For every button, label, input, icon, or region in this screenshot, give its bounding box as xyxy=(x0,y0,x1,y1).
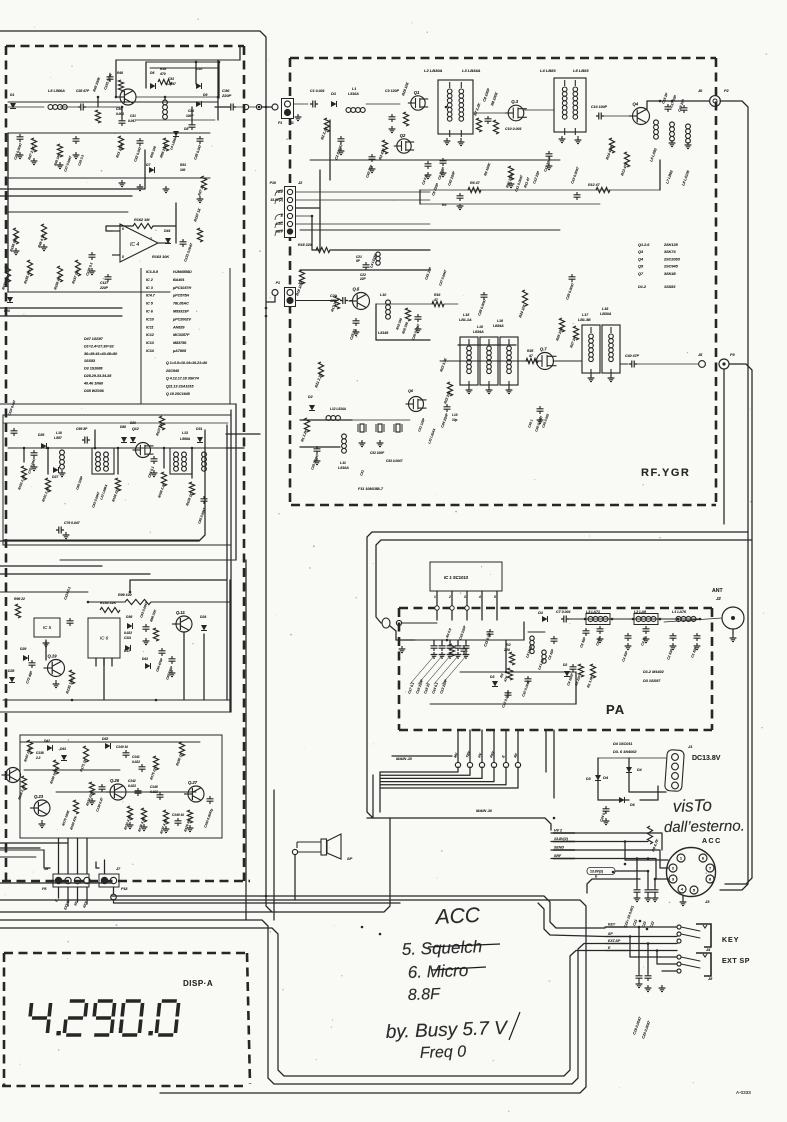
capacitor C8p xyxy=(553,636,555,644)
ground C4 xyxy=(425,172,432,179)
svg-text:R49 100K: R49 100K xyxy=(92,76,101,92)
capacitor C1p xyxy=(696,633,698,641)
ground ltop2 xyxy=(137,184,144,191)
ground ltop3 xyxy=(163,186,170,193)
svg-text:visTo: visTo xyxy=(672,796,712,816)
connector J1 DC body xyxy=(665,749,685,791)
wire IC1 pin 3 xyxy=(466,591,468,620)
connector P2 center xyxy=(713,99,717,103)
capacitor C34 xyxy=(446,404,448,412)
wire R99 rail left xyxy=(88,601,125,603)
svg-text:C15 22: C15 22 xyxy=(423,683,431,695)
svg-text:IC10: IC10 xyxy=(146,317,155,321)
svg-text:LB1-1A: LB1-1A xyxy=(459,318,472,322)
ground L7 xyxy=(669,140,676,147)
svg-text:C6 39P: C6 39P xyxy=(579,636,587,648)
capacitor C84 xyxy=(153,456,155,464)
svg-text:2SC2053: 2SC2053 xyxy=(663,257,681,261)
wire J7 drop xyxy=(113,887,115,894)
speaker terminal xyxy=(292,849,297,854)
wire ifbox right exit 2 xyxy=(226,447,244,449)
svg-text:BA401: BA401 xyxy=(173,278,184,282)
diode D3dc xyxy=(595,775,601,781)
resistor R98 xyxy=(153,628,158,641)
ground C19b xyxy=(457,204,464,210)
diode D6 xyxy=(150,83,156,89)
wire ltop rail y178 xyxy=(8,177,210,179)
jack J5 prong 1 xyxy=(681,957,700,961)
ground L18 xyxy=(608,375,615,382)
transistor Q22 xyxy=(6,768,21,783)
svg-text:IC11: IC11 xyxy=(146,325,154,329)
wire top feed vertical bus xyxy=(0,31,272,912)
connector J2 pin 6 xyxy=(287,229,292,234)
wire ACC signal 13.8V(2) xyxy=(551,841,648,843)
svg-text:D9: D9 xyxy=(203,93,207,97)
jack J5 prong 2 xyxy=(681,964,700,968)
svg-text:C11 0.0047: C11 0.0047 xyxy=(514,174,524,193)
wire J6 riser E xyxy=(58,838,60,874)
transistor Q1 xyxy=(411,96,425,110)
svg-text:C31: C31 xyxy=(359,469,365,476)
wire IC1 pin 2 xyxy=(451,591,453,620)
wire MAIN J3 RF xyxy=(517,730,519,762)
seven-segment digit 9 xyxy=(92,1001,115,1035)
svg-text:C28 0.0047: C28 0.0047 xyxy=(310,453,319,470)
svg-text:EXT SP: EXT SP xyxy=(722,958,750,965)
svg-text:L1: L1 xyxy=(352,87,356,91)
wire ifbox stub e xyxy=(163,448,165,468)
ground aud3 xyxy=(127,822,134,829)
svg-text:D28.29.33.34.35: D28.29.33.34.35 xyxy=(84,374,112,378)
svg-text:D6: D6 xyxy=(150,71,154,75)
svg-text:1SS53: 1SS53 xyxy=(664,285,676,289)
svg-text:C69 3P: C69 3P xyxy=(76,427,88,431)
wire pa vert j xyxy=(575,672,577,704)
wire key signal E xyxy=(605,950,677,952)
svg-text:DC13.8V: DC13.8V xyxy=(692,755,721,762)
svg-text:D43: D43 xyxy=(142,657,148,661)
terminal PA pin border 2 xyxy=(450,606,454,610)
svg-text:C12 0.0047: C12 0.0047 xyxy=(501,691,511,709)
ACC connector pin 3 xyxy=(669,875,677,883)
svg-text:C139 0.47: C139 0.47 xyxy=(95,797,104,812)
capacitor C32L xyxy=(139,138,141,146)
svg-text:47: 47 xyxy=(433,298,439,302)
seven-segment digit 0a xyxy=(120,1001,143,1035)
resistor R37 xyxy=(201,176,206,190)
resistor R160 xyxy=(73,800,78,814)
svg-text:0.022: 0.022 xyxy=(132,760,140,764)
svg-text:C10 0.0047: C10 0.0047 xyxy=(521,680,531,698)
wire SP feed rail xyxy=(538,903,605,937)
wire MAIN J3 bundle 4 xyxy=(380,767,506,785)
svg-text:Q.11: Q.11 xyxy=(176,610,185,615)
wire ltop stub c30 xyxy=(121,107,123,118)
connector J1 DC pin 4 xyxy=(672,782,679,789)
resistor R157 xyxy=(197,228,202,242)
wire MAIN J4 bus xyxy=(367,818,551,830)
svg-text:C31 120P: C31 120P xyxy=(417,417,426,433)
resistor R171 xyxy=(83,746,88,762)
svg-text:LB34A: LB34A xyxy=(493,324,504,328)
wire ltop rail y68 xyxy=(150,67,218,69)
wire PA in to caps xyxy=(415,639,448,641)
svg-text:R160 47K: R160 47K xyxy=(69,815,78,831)
connector P2 xyxy=(710,96,721,107)
ground C14 0.1 xyxy=(455,652,462,658)
wire ACC E curve xyxy=(587,879,592,893)
svg-text:R7 2.2K: R7 2.2K xyxy=(473,102,481,116)
wire J1 to C1 xyxy=(294,103,309,105)
resistor R26 xyxy=(559,318,564,332)
wire trio rail xyxy=(440,360,530,362)
resistor R20 xyxy=(405,308,410,321)
wire E loop rail xyxy=(0,928,605,1076)
svg-text:D44: D44 xyxy=(164,229,170,233)
svg-text:IC4.7: IC4.7 xyxy=(146,294,156,298)
svg-text:2SC945: 2SC945 xyxy=(165,369,180,373)
resistor R46 xyxy=(41,224,46,240)
crystal F11 b xyxy=(378,424,382,432)
capacitor C146 xyxy=(177,818,179,826)
inductor L5L xyxy=(48,105,53,110)
inductor L6L mid xyxy=(163,100,168,105)
resistor R4 xyxy=(449,644,454,656)
wire MAIN J3 bundle 0 xyxy=(380,767,458,772)
svg-text:100: 100 xyxy=(180,168,186,172)
ground F11a xyxy=(359,440,366,447)
wire rf rail y230 xyxy=(300,229,560,231)
capacitor C15 22 xyxy=(449,643,451,651)
wire extsp jack3 link xyxy=(662,970,677,972)
svg-text:R6 47: R6 47 xyxy=(470,181,481,185)
wire ltop rail3 xyxy=(86,106,120,108)
ground C28rf xyxy=(314,458,321,465)
resistor R174 xyxy=(89,782,94,795)
ground q19 xyxy=(53,680,60,688)
svg-text:5: 5 xyxy=(122,255,124,259)
ACC connector pin 1 xyxy=(677,854,685,862)
wire PA in to IC1 pin xyxy=(402,622,437,624)
terminal junction b xyxy=(256,104,261,109)
wire RF bottom rail 1 xyxy=(372,531,748,533)
wire ACC signal HV 2 xyxy=(551,832,648,834)
resistor R168 xyxy=(21,776,26,790)
svg-text:L16: L16 xyxy=(477,325,483,329)
resistor R109 xyxy=(189,482,194,495)
wire MAIN J3 HV xyxy=(481,730,483,762)
diode D58 xyxy=(121,437,127,443)
svg-text:Q 1=3.5=10.14=16.21=30: Q 1=3.5=10.14=16.21=30 xyxy=(166,361,207,365)
svg-text:EXT.SP: EXT.SP xyxy=(608,939,621,943)
svg-text:D1: D1 xyxy=(331,91,337,96)
svg-text:AN829: AN829 xyxy=(172,325,185,329)
svg-text:C26 0.0047: C26 0.0047 xyxy=(411,323,420,340)
svg-text:D52: D52 xyxy=(102,737,108,741)
svg-text:R109 1K: R109 1K xyxy=(185,492,194,506)
wire opamp out xyxy=(153,226,176,243)
PA block dashed border left xyxy=(398,608,401,730)
wire ACC gnd stub xyxy=(682,896,684,900)
connector J6 pin EXT.SP xyxy=(65,877,71,883)
svg-text:C42 220P: C42 220P xyxy=(447,170,456,186)
wire pa rail y704 xyxy=(430,703,576,705)
capacitor C191 xyxy=(109,74,111,82)
svg-text:L17: L17 xyxy=(582,313,589,317)
wire ltop upper vert b xyxy=(218,62,220,98)
svg-text:C19 0.0047: C19 0.0047 xyxy=(570,165,580,184)
terminal below J7 xyxy=(111,894,117,900)
capacitor C142 xyxy=(137,788,139,796)
svg-text:Q5: Q5 xyxy=(638,265,644,269)
terminal P1 plug xyxy=(272,104,278,110)
wire speaker feed xyxy=(294,855,296,900)
ground ifb1 xyxy=(31,464,38,471)
wire pa rail y672 xyxy=(460,671,576,673)
svg-text:8.8F: 8.8F xyxy=(408,986,442,1004)
svg-text:J1: J1 xyxy=(688,744,693,749)
wire P2 output right rail xyxy=(720,101,748,890)
op-amp IC4 xyxy=(120,224,158,262)
capacitor C34L xyxy=(191,122,193,130)
wire ltop rail y60 xyxy=(116,59,240,61)
svg-text:Q.26: Q.26 xyxy=(110,778,120,783)
svg-text:4: 4 xyxy=(681,887,684,892)
diode D37 xyxy=(125,645,131,651)
svg-text:PA: PA xyxy=(606,702,625,717)
wire IC1 pin 4 xyxy=(481,591,483,620)
capacitor C127 xyxy=(107,274,109,282)
RF.YGR block dashed border top xyxy=(290,57,716,60)
svg-text:IC 6: IC 6 xyxy=(146,310,154,314)
svg-text:R15 220: R15 220 xyxy=(298,243,312,247)
svg-text:2.2: 2.2 xyxy=(35,756,41,760)
svg-text:4: 4 xyxy=(478,595,481,599)
diode D28 xyxy=(9,677,15,683)
svg-text:D4: D4 xyxy=(637,768,642,772)
connector J1 body xyxy=(282,99,294,119)
capacitor C7p xyxy=(561,618,569,620)
svg-text:D3: D3 xyxy=(586,777,591,781)
wire J7 exit right xyxy=(114,900,401,904)
svg-text:D35 WZ036: D35 WZ036 xyxy=(84,389,105,393)
ACC connector pin 4 xyxy=(678,885,686,893)
connector J1 pin 2 xyxy=(285,110,291,116)
key signal underline EXT.SP xyxy=(606,943,628,945)
capacitor C29L xyxy=(75,136,77,144)
wire pa mid rail2 xyxy=(528,631,545,633)
wire ltop stub c34 xyxy=(191,107,193,122)
svg-text:R98 22K: R98 22K xyxy=(149,608,157,622)
capacitor C145 xyxy=(159,792,161,800)
svg-text:R23 3.3K: R23 3.3K xyxy=(439,357,448,372)
diode D1p xyxy=(542,616,548,622)
IF transformer L4 LB53 / L5 LB53 xyxy=(554,78,586,132)
svg-text:C19 0.0047: C19 0.0047 xyxy=(632,1016,642,1036)
wire rf mid rail y270 xyxy=(300,269,430,271)
handwritten strike micro xyxy=(432,967,486,970)
svg-text:D43: D43 xyxy=(60,747,66,751)
left block dashed border right xyxy=(243,46,246,881)
svg-text:C21: C21 xyxy=(632,919,638,926)
ground ltop4 xyxy=(197,196,204,203)
capacitor acc C23 xyxy=(654,887,656,895)
svg-text:1: 1 xyxy=(434,595,436,599)
svg-text:1: 1 xyxy=(680,856,683,861)
transistor Q7 xyxy=(537,353,554,370)
terminal junction a xyxy=(243,104,248,109)
svg-text:P18: P18 xyxy=(121,887,127,891)
svg-text:L18: L18 xyxy=(602,307,608,311)
svg-text:µPC1037H: µPC1037H xyxy=(172,286,191,290)
svg-text:C1 0.001: C1 0.001 xyxy=(310,89,325,93)
svg-text:D6: D6 xyxy=(630,803,636,807)
svg-text:P10: P10 xyxy=(270,181,276,185)
diode D6dc xyxy=(619,797,625,803)
wire J6 riser EXT xyxy=(67,838,69,874)
inductor T1 right xyxy=(104,452,109,457)
diode D1L xyxy=(10,103,16,109)
resistor R102 xyxy=(21,466,26,480)
svg-text:C140 10: C140 10 xyxy=(116,745,128,749)
wire mid rail y560 xyxy=(60,559,236,561)
svg-text:E: E xyxy=(281,214,284,218)
svg-text:0.0047: 0.0047 xyxy=(166,82,176,86)
wire c20 drop xyxy=(647,944,649,974)
capacitor C28rf xyxy=(316,446,318,454)
resistor R162 xyxy=(133,223,153,228)
wire J6 stub EXT xyxy=(67,887,69,906)
wire MAIN J3 PAV xyxy=(493,730,495,762)
connector J6 body xyxy=(53,874,89,887)
svg-text:SEND: SEND xyxy=(554,846,564,850)
jack J4 arrow xyxy=(703,925,707,928)
ground aud2 xyxy=(89,798,96,805)
transistor Q12 xyxy=(136,443,151,458)
wire C14 to Q4 xyxy=(604,115,628,117)
svg-text:L566A: L566A xyxy=(180,437,191,441)
capacitor C13 220P xyxy=(465,643,467,651)
wire mid vert e xyxy=(235,404,237,560)
capacitor C35 xyxy=(539,406,541,414)
wire rf vert x330 xyxy=(329,120,331,180)
inductor T2 left xyxy=(174,452,179,457)
svg-text:LB34A: LB34A xyxy=(473,330,484,334)
svg-text:L12 L514A: L12 L514A xyxy=(427,427,436,444)
IF transformer L17 xyxy=(582,325,600,373)
svg-text:0.047: 0.047 xyxy=(128,119,136,123)
svg-text:3: 3 xyxy=(464,595,466,599)
ground C16 220P xyxy=(439,652,446,658)
svg-text:R170 100K: R170 100K xyxy=(61,809,71,826)
ground C3 xyxy=(389,126,396,133)
svg-text:D31: D31 xyxy=(196,427,202,431)
svg-text:Q3: Q3 xyxy=(638,250,644,254)
connector J2 pin 4 xyxy=(287,213,292,218)
wire inner vertical pair b xyxy=(230,410,232,712)
capacitor C24dc xyxy=(605,806,607,814)
wire rf bottom rail y447 xyxy=(300,446,340,448)
resistor R8 xyxy=(493,120,498,134)
wire Q4 collector out xyxy=(647,101,709,110)
svg-text:1SS53: 1SS53 xyxy=(84,359,96,363)
wire J3 to C20 xyxy=(296,300,339,302)
wire bottom short rail c xyxy=(0,882,112,884)
ground R10 xyxy=(508,182,515,188)
wire MAIN J3 MV xyxy=(457,730,459,762)
svg-text:C191 0.047: C191 0.047 xyxy=(103,71,113,90)
wire IC1 pin 1 xyxy=(436,591,438,620)
resistor R175 xyxy=(153,756,158,770)
svg-text:6. Micro: 6. Micro xyxy=(407,961,468,982)
svg-text:A-0333: A-0333 xyxy=(736,1090,751,1095)
wire ltop vert b xyxy=(217,60,219,120)
ground ANT xyxy=(730,634,737,642)
wire ifbox stub b xyxy=(47,448,49,474)
wire Q3 to box2 xyxy=(524,109,554,111)
svg-text:220P: 220P xyxy=(221,93,232,98)
resistor R18 xyxy=(299,270,304,284)
jack J4 contact 2 xyxy=(677,932,681,936)
svg-text:R20 330: R20 330 xyxy=(401,321,409,334)
wire ifbox stub c xyxy=(94,430,96,448)
svg-text:C27 0.0047: C27 0.0047 xyxy=(63,155,72,172)
wire J6 riser KEY xyxy=(86,838,88,874)
wire rf vert x320 xyxy=(319,170,321,208)
wire ic6 stub c xyxy=(111,658,113,666)
capacitor C140 xyxy=(125,750,127,758)
svg-text:KEY: KEY xyxy=(608,923,616,927)
transistor Q26 xyxy=(110,784,126,800)
svg-text:R12 47: R12 47 xyxy=(588,183,601,187)
ground pa4 xyxy=(670,643,677,650)
wire D6 to J1 xyxy=(640,786,658,800)
svg-text:D1=2.4=27.30=32: D1=2.4=27.30=32 xyxy=(84,344,115,348)
capacitor C35L xyxy=(199,136,201,144)
capacitor C20k xyxy=(647,973,649,981)
resistor R1rf xyxy=(304,418,309,432)
svg-text:Q4: Q4 xyxy=(638,257,644,261)
wire left exit mid 1 xyxy=(0,565,102,567)
capacitor C128 xyxy=(91,252,93,260)
svg-text:0.001: 0.001 xyxy=(116,112,124,116)
svg-text:D3: D3 xyxy=(490,675,494,679)
diode D31 xyxy=(197,437,203,443)
capacitor C2p xyxy=(672,633,674,641)
svg-text:3SK74: 3SK74 xyxy=(664,250,676,254)
svg-text:C33: C33 xyxy=(168,77,174,81)
wire DC top xyxy=(598,757,666,759)
svg-text:L5145: L5145 xyxy=(378,331,389,335)
svg-text:P1: P1 xyxy=(278,121,282,125)
svg-text:L15: L15 xyxy=(463,313,470,317)
wire MAIN J3 TBV xyxy=(469,730,471,762)
svg-text:D28: D28 xyxy=(8,669,14,673)
RF.YGR block dashed border right xyxy=(715,58,718,505)
capacitor C6p xyxy=(585,628,587,636)
svg-text:220P: 220P xyxy=(99,286,109,290)
svg-text:R39 100: R39 100 xyxy=(149,145,157,158)
capacitor C69 xyxy=(82,439,90,441)
ground extsp misc xyxy=(659,985,666,992)
svg-text:D47 1SS97: D47 1SS97 xyxy=(84,337,104,341)
capacitor C1 xyxy=(310,103,318,105)
svg-text:R48: R48 xyxy=(117,71,123,75)
svg-text:C5 220P: C5 220P xyxy=(431,182,440,196)
wire ltop exit pair 1 xyxy=(0,150,145,189)
wire J6 stub E xyxy=(58,887,60,898)
